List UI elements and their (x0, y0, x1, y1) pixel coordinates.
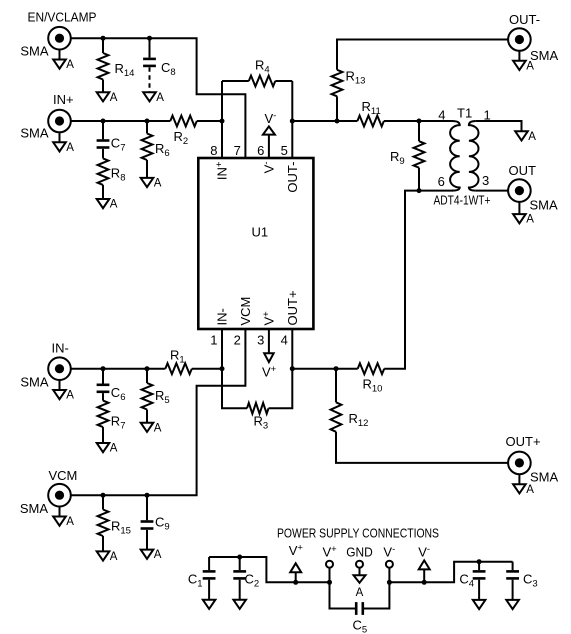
svg-text:OUT-: OUT- (285, 162, 300, 193)
svg-text:A: A (110, 199, 118, 211)
svg-text:IN+: IN+ (53, 92, 74, 107)
svg-text:OUT-: OUT- (509, 12, 540, 27)
svg-text:8: 8 (210, 143, 217, 158)
svg-text:A: A (66, 59, 74, 71)
svg-text:VCM: VCM (49, 468, 78, 483)
svg-text:A: A (526, 484, 534, 496)
svg-text:7: 7 (234, 143, 241, 158)
svg-text:T1: T1 (457, 106, 472, 121)
svg-text:A: A (154, 178, 162, 190)
svg-text:U1: U1 (252, 225, 269, 240)
svg-text:SMA: SMA (530, 48, 559, 63)
svg-text:A: A (110, 443, 118, 455)
svg-text:A: A (154, 549, 162, 561)
svg-text:5: 5 (281, 143, 288, 158)
svg-text:SMA: SMA (20, 44, 49, 59)
svg-text:3: 3 (257, 333, 264, 348)
svg-text:SMA: SMA (530, 198, 559, 213)
svg-text:A: A (356, 587, 364, 599)
svg-text:VCM: VCM (238, 297, 253, 326)
svg-text:OUT+: OUT+ (285, 290, 300, 325)
svg-text:4: 4 (438, 108, 445, 123)
svg-text:6: 6 (257, 143, 264, 158)
svg-text:GND: GND (346, 545, 373, 560)
svg-text:OUT: OUT (509, 163, 537, 178)
svg-text:A: A (526, 214, 534, 226)
svg-text:2: 2 (234, 333, 241, 348)
svg-text:A: A (66, 390, 74, 402)
svg-text:SMA: SMA (20, 501, 49, 516)
svg-text:IN-: IN- (215, 308, 230, 325)
svg-text:1: 1 (484, 108, 491, 123)
svg-text:IN-: IN- (52, 341, 69, 356)
svg-text:6: 6 (438, 174, 445, 189)
svg-text:OUT+: OUT+ (506, 434, 541, 449)
svg-text:SMA: SMA (20, 126, 49, 141)
svg-text:A: A (528, 131, 536, 143)
svg-text:SMA: SMA (530, 470, 559, 485)
svg-text:ADT4-1WT+: ADT4-1WT+ (434, 193, 491, 208)
svg-text:A: A (110, 551, 118, 563)
svg-text:A: A (156, 92, 164, 104)
svg-text:4: 4 (281, 333, 288, 348)
svg-text:3: 3 (482, 173, 489, 188)
svg-text:A: A (110, 92, 118, 104)
svg-text:POWER SUPPLY CONNECTIONS: POWER SUPPLY CONNECTIONS (277, 526, 439, 541)
svg-text:A: A (154, 422, 162, 434)
svg-text:EN/VCLAMP: EN/VCLAMP (28, 10, 97, 25)
svg-text:SMA: SMA (20, 375, 49, 390)
svg-text:1: 1 (210, 333, 217, 348)
svg-text:A: A (66, 142, 74, 154)
svg-text:A: A (66, 516, 74, 528)
